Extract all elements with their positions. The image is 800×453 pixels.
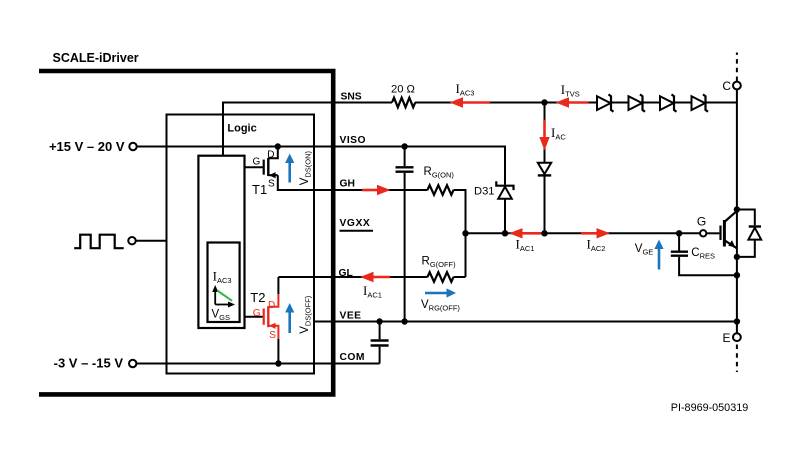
VISO wire [137,147,505,185]
junction VEE/COM cap [376,318,382,324]
freewheel diode [737,210,761,257]
svg-text:G: G [253,308,261,319]
svg-text:-3 V – -15 V: -3 V – -15 V [54,356,124,371]
red arrow GL IAC1 [360,272,390,300]
wire +15V to box [137,146,168,148]
svg-text:G: G [697,214,706,228]
svg-text:VISO: VISO [340,135,366,146]
capacitor CRES [671,230,737,275]
svg-text:VEE: VEE [340,311,362,322]
svg-text:Logic: Logic [227,122,256,134]
svg-text:PI-8969-050319: PI-8969-050319 [671,402,748,414]
transistor T2 [245,277,282,367]
junction VEE/decoupling cap [401,318,407,324]
svg-text:GH: GH [340,179,355,190]
logic block box [198,156,244,328]
svg-text:20 Ω: 20 Ω [391,83,415,95]
axis arrow horizontal (mini box) [215,304,230,306]
VGXX underline [340,230,374,232]
gate net wire [466,232,701,234]
svg-text:C: C [722,79,731,93]
resistor 20 ohm [392,98,415,108]
GL wire [278,276,427,278]
emitter wire to E [736,257,738,333]
svg-text:D: D [268,300,275,311]
blue arrow VDS(OFF) [285,295,312,334]
svg-text:COM: COM [340,352,365,363]
zener D31 [496,181,513,190]
svg-text:S: S [268,179,275,190]
square wave glyph [74,235,124,249]
terminal PWM circle [128,237,135,244]
svg-text:T1: T1 [252,182,267,197]
svg-text:D: D [267,149,274,160]
svg-text:D31: D31 [474,185,495,197]
IGBT gate terminal G [697,214,720,236]
transistor T1 [245,143,281,197]
axis arrow vertical (mini box) [214,290,216,305]
IGBT Q1 [721,206,741,278]
SNS wire [223,103,392,156]
resistor RG(ON) [428,185,454,195]
blue arrow VDS(ON) [285,150,312,185]
junction gate/D31 [502,230,508,236]
svg-text:SCALE-iDriver: SCALE-iDriver [53,51,139,65]
red arrow IAC2 (gate net) [581,228,610,253]
junction VEE/emitter [734,318,740,324]
blue arrow VRG(OFF) [421,288,460,312]
characteristic mini box [208,243,240,323]
terminal -3V circle [129,360,136,367]
junction gate/IAC diode [541,230,547,236]
terminal E [723,331,741,372]
blue arrow VGE [635,240,664,270]
terminal +15V circle [129,143,136,150]
junction node SNS/collector chain [541,99,547,105]
wire PWM to box [136,240,168,242]
junction VISO/decoupling cap [401,143,407,149]
VISO decoupling capacitor [404,147,406,167]
svg-text:VGXX: VGXX [340,218,371,229]
svg-text:E: E [723,331,731,345]
COM wire [136,363,379,365]
terminal C [722,53,740,94]
svg-text:+15 V – 20 V: +15 V – 20 V [49,139,125,154]
red arrow ITVS [556,82,589,108]
junction gate node RG(ON)/RG(OFF) [462,230,468,236]
red arrow IAC [539,120,566,151]
VEE wire [314,321,737,323]
red arrow GH (on) [377,185,391,195]
svg-text:SNS: SNS [341,92,362,103]
GH wire from T1 source [278,175,428,190]
IAC branch diode [544,103,546,163]
red arrow IAC1 (gate net) [509,228,542,253]
TVS diode chain [597,94,708,111]
svg-text:S: S [269,330,276,341]
COM capacitor [379,322,381,340]
inner box [167,115,315,374]
driver outer box [39,71,333,394]
collector wire to C [736,89,738,211]
red arrow IAC3 [450,81,491,108]
green load line [217,291,232,301]
svg-text:T2: T2 [250,290,265,305]
svg-text:G: G [253,156,261,167]
resistor RG(OFF) [428,272,454,282]
